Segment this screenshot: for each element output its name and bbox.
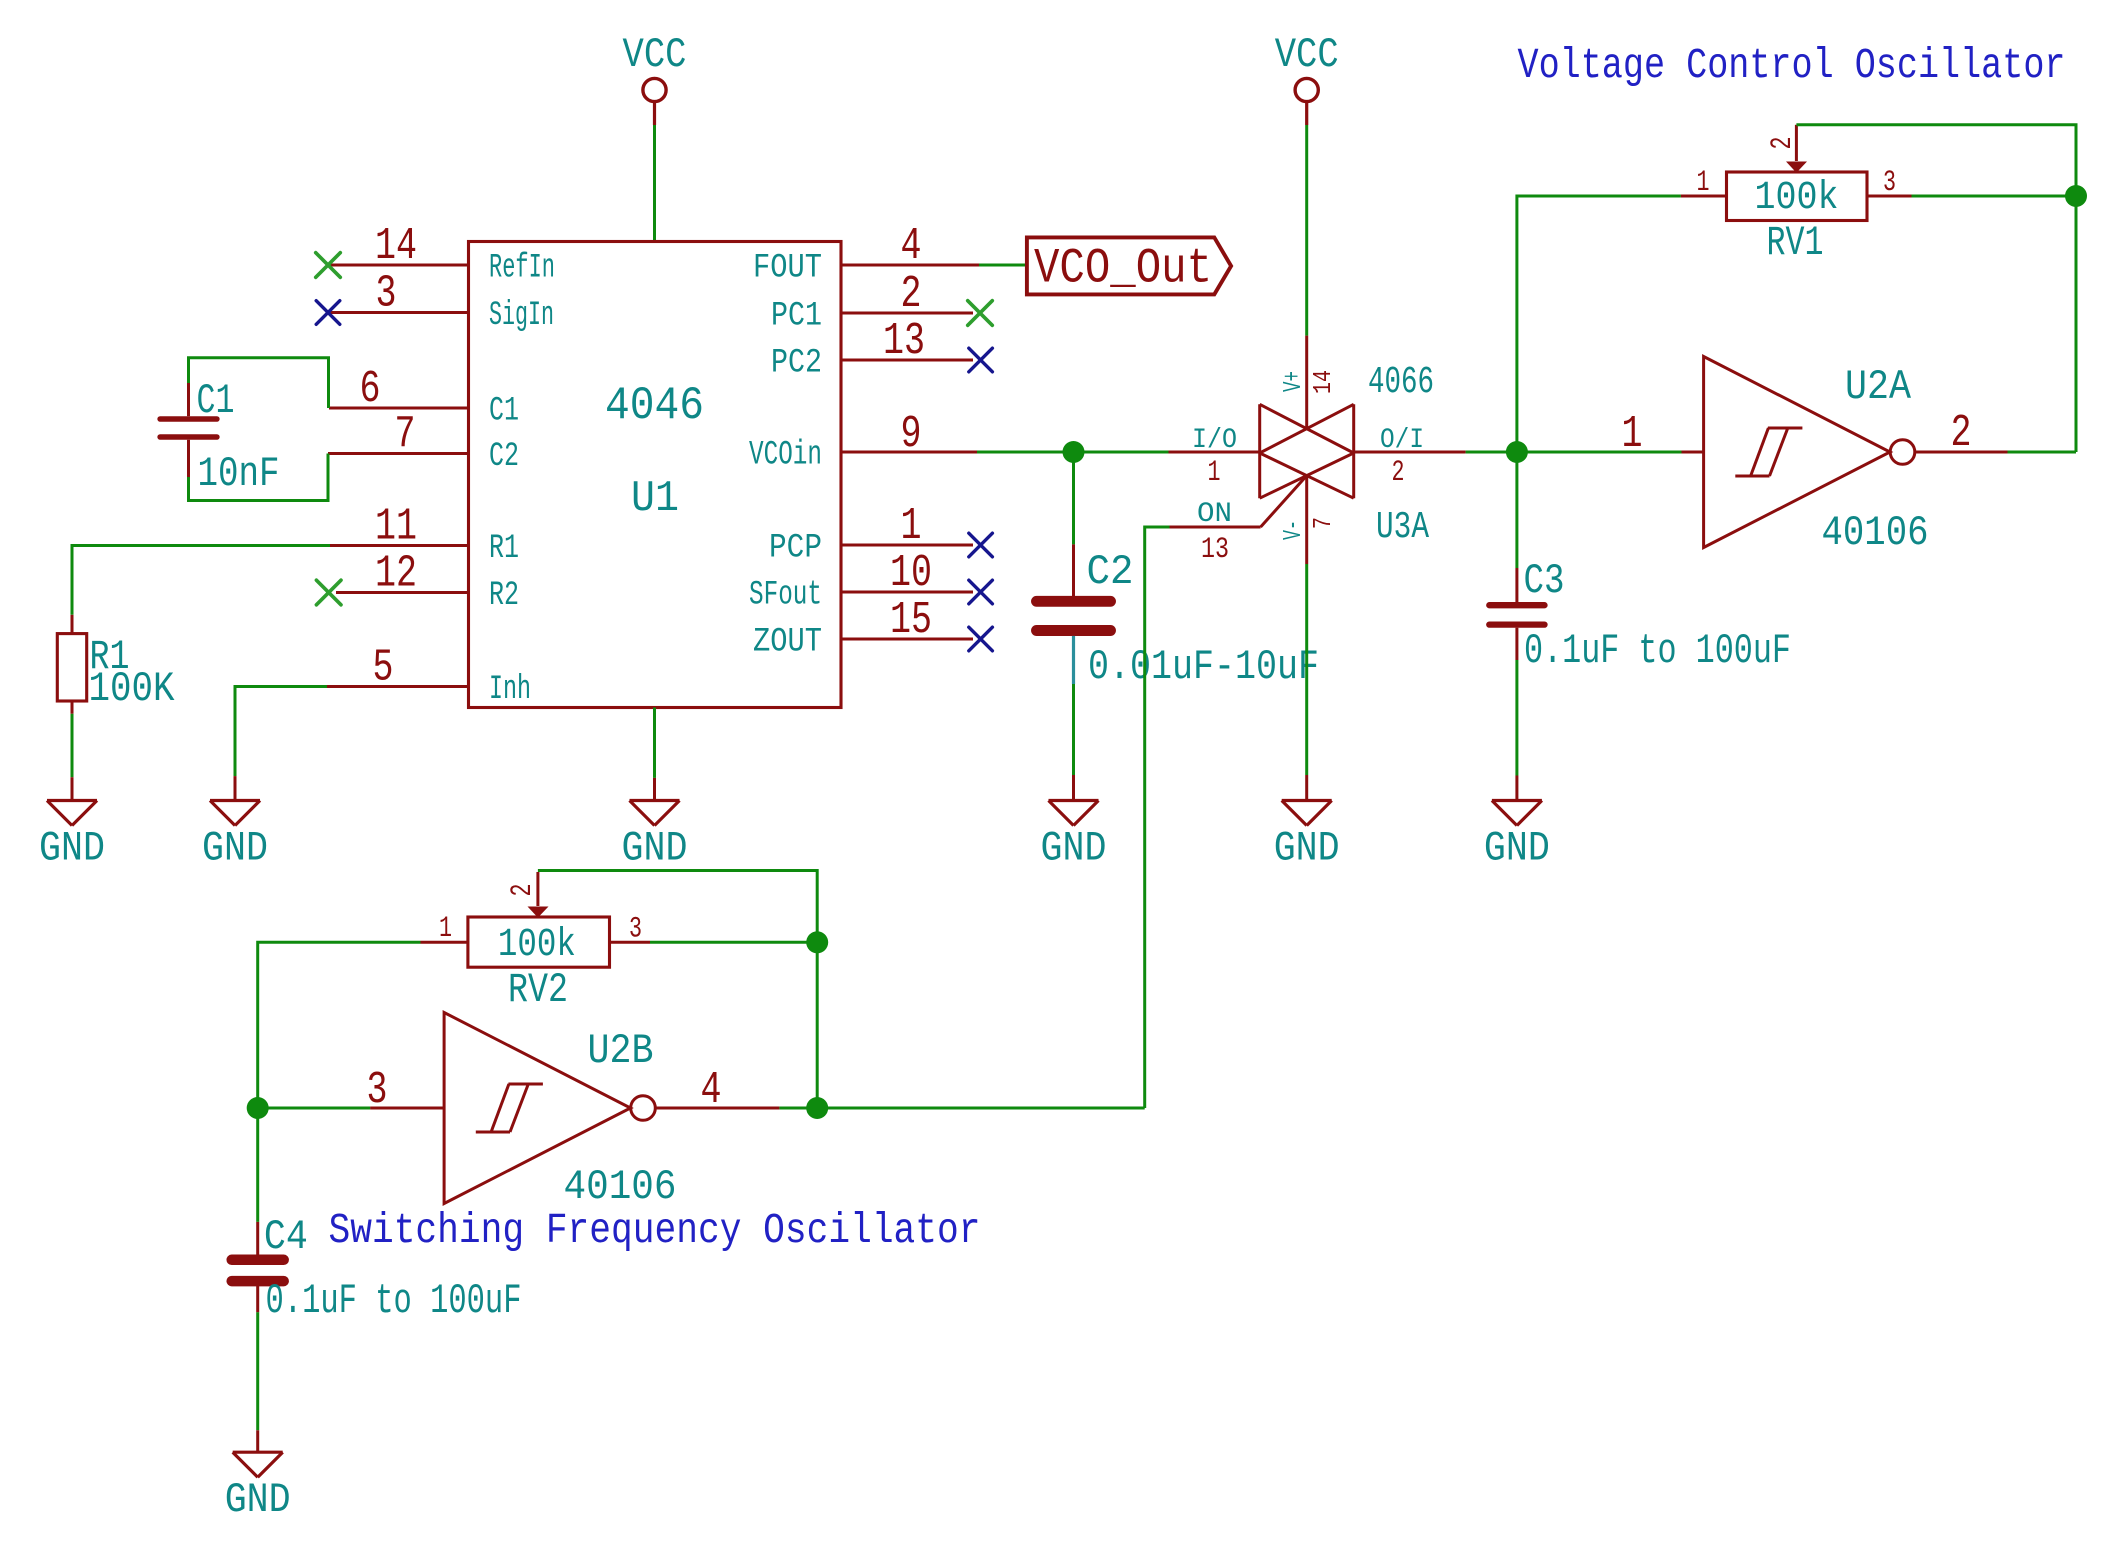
junction U2A input node xyxy=(1506,441,1528,463)
U3A pin 1 I/O xyxy=(1169,425,1260,490)
RV2 pin 3 number xyxy=(629,913,642,947)
C2 bottom teal pin segment xyxy=(1072,636,1075,684)
svg-text:RefIn: RefIn xyxy=(489,250,555,288)
wire ON riser xyxy=(1145,527,1170,1108)
RV1 pin 2 number xyxy=(1766,137,1800,150)
U3A pin 7 V- xyxy=(1278,476,1338,564)
ground GND (U1) xyxy=(622,778,688,873)
no-connect pin 12 (green X) xyxy=(316,580,341,605)
U1 pin 4 FOUT xyxy=(753,221,979,288)
svg-text:GND: GND xyxy=(39,825,105,873)
note title Switching Frequency Oscillator xyxy=(329,1206,981,1255)
svg-text:9: 9 xyxy=(901,409,922,460)
svg-text:13: 13 xyxy=(883,316,925,367)
svg-text:5: 5 xyxy=(373,643,394,694)
wire C1 bottom to U1 pin7 xyxy=(189,454,329,501)
svg-text:2: 2 xyxy=(901,269,922,320)
svg-text:VCC: VCC xyxy=(623,31,687,79)
U1 pin 5 Inh xyxy=(327,643,531,710)
wire RV2 pin3 to node xyxy=(650,941,817,944)
svg-text:V+: V+ xyxy=(1278,371,1308,392)
U2A pin 2 output xyxy=(1915,408,2008,459)
wire junction to C3 xyxy=(1515,452,1518,568)
note title Voltage Control Oscillator xyxy=(1518,41,2066,90)
svg-text:PC1: PC1 xyxy=(771,298,822,336)
svg-text:100K: 100K xyxy=(89,665,176,713)
svg-text:ON: ON xyxy=(1197,499,1232,530)
wire input node to U2B pin3 xyxy=(258,1107,370,1110)
svg-text:U3A: U3A xyxy=(1376,506,1429,549)
svg-text:RV1: RV1 xyxy=(1767,219,1824,267)
wire U1 pin9 to junction xyxy=(977,451,1074,454)
wire RV2 wiper loop xyxy=(538,871,817,943)
wire RV1 pin3 to output node xyxy=(1912,195,2077,198)
wire U3A O/I to junction xyxy=(1466,451,1517,454)
U1 pin 10 SFout xyxy=(749,548,973,615)
C3 value 0.1uF to 100uF xyxy=(1524,627,1791,675)
svg-text:RV2: RV2 xyxy=(508,966,568,1014)
wire RV2 node down to U2B output node xyxy=(816,942,819,1108)
ground GND (Inh) xyxy=(202,776,268,872)
U2B value 40106 xyxy=(564,1163,677,1211)
U3A value 4066 xyxy=(1368,361,1434,404)
capacitor C2 xyxy=(1037,544,1111,630)
svg-text:10: 10 xyxy=(890,548,932,599)
C3 reference xyxy=(1524,557,1565,605)
U3A reference U3A xyxy=(1376,506,1429,549)
svg-text:1: 1 xyxy=(1697,166,1710,200)
wire output node down to U2A output xyxy=(2075,196,2078,452)
svg-text:1: 1 xyxy=(439,912,452,946)
svg-text:40106: 40106 xyxy=(1822,509,1929,557)
ground GND (C4) xyxy=(225,1430,291,1524)
svg-text:1: 1 xyxy=(901,501,922,552)
svg-text:SFout: SFout xyxy=(749,577,822,615)
C2 reference xyxy=(1087,548,1134,596)
svg-text:13: 13 xyxy=(1201,533,1229,567)
wire C1 top to U1 pin6 xyxy=(189,358,329,408)
wire junction to U2A input xyxy=(1517,451,1682,454)
junction U2B input node xyxy=(247,1097,269,1119)
wire C2 to GND xyxy=(1072,684,1075,775)
svg-text:4: 4 xyxy=(901,221,922,272)
svg-text:C2: C2 xyxy=(1087,548,1134,596)
wire U1 pin8 to GND xyxy=(653,708,656,778)
svg-text:4: 4 xyxy=(701,1065,722,1116)
C1 value 10nF xyxy=(198,450,280,498)
wire junction up to RV1 pin1 xyxy=(1517,196,1681,452)
U1 pin 11 R1 xyxy=(330,502,519,569)
svg-text:3: 3 xyxy=(629,913,642,947)
wire U1 pin5 to GND xyxy=(235,687,327,777)
svg-text:Switching Frequency Oscillator: Switching Frequency Oscillator xyxy=(329,1206,981,1255)
U2B pin 4 output xyxy=(656,1065,780,1116)
wire VCC to U3A V+ xyxy=(1305,125,1308,336)
svg-text:7: 7 xyxy=(1308,517,1338,529)
svg-text:0.1uF to 100uF: 0.1uF to 100uF xyxy=(1524,627,1791,675)
RV1 pin 3 number xyxy=(1883,166,1896,200)
svg-text:C4: C4 xyxy=(264,1213,308,1261)
wire C3 to GND xyxy=(1515,660,1518,776)
no-connect pin 1 (blue X) xyxy=(969,533,993,557)
wire U3A V- to GND xyxy=(1305,564,1308,775)
U1 pin 3 SigIn xyxy=(330,269,554,336)
svg-text:3: 3 xyxy=(1883,166,1896,200)
svg-text:10nF: 10nF xyxy=(198,450,280,498)
no-connect pin 3 (blue X) xyxy=(316,301,340,325)
no-connect pin 2 (green X) xyxy=(968,301,993,326)
R1 reference xyxy=(90,633,130,681)
RV2 pin 2 number xyxy=(506,884,540,897)
U1 pin 9 VCOin xyxy=(749,409,977,475)
svg-text:Inh: Inh xyxy=(489,671,531,709)
potentiometer RV1 xyxy=(1681,125,1912,221)
wire VCC to U1 pin16 xyxy=(653,125,656,242)
svg-text:4066: 4066 xyxy=(1368,361,1434,404)
svg-text:2: 2 xyxy=(1392,456,1405,490)
U3A pin 14 V+ xyxy=(1278,336,1338,428)
svg-text:R2: R2 xyxy=(489,577,519,615)
wire junction to C2 xyxy=(1072,452,1075,544)
power flag VCC (U1) xyxy=(623,31,687,125)
svg-text:C1: C1 xyxy=(489,393,519,431)
junction U2B output node xyxy=(806,1097,828,1119)
no-connect pin 10 (blue X) xyxy=(969,580,993,604)
U1 pin 2 PC1 xyxy=(771,269,973,336)
svg-text:14: 14 xyxy=(375,221,417,272)
no-connect pin 13 (blue X) xyxy=(969,348,993,372)
capacitor C4 xyxy=(232,1222,284,1312)
svg-text:Voltage Control Oscillator: Voltage Control Oscillator xyxy=(1518,41,2066,90)
svg-text:14: 14 xyxy=(1308,370,1338,394)
wire C4 to GND xyxy=(256,1312,259,1430)
inverter U2A body xyxy=(1704,357,1915,548)
wire input node down to C4 xyxy=(256,1108,259,1222)
svg-text:11: 11 xyxy=(375,502,417,553)
svg-text:C3: C3 xyxy=(1524,557,1565,605)
svg-text:2: 2 xyxy=(506,884,540,897)
svg-text:U2A: U2A xyxy=(1845,363,1912,411)
svg-text:I/O: I/O xyxy=(1192,425,1237,456)
RV1 pin 1 number xyxy=(1697,166,1710,200)
ground GND (C3) xyxy=(1484,776,1550,873)
svg-text:12: 12 xyxy=(375,549,417,600)
U1 pin 13 PC2 xyxy=(771,316,973,383)
wire FOUT to VCO_Out label xyxy=(979,264,1027,267)
C4 value 0.1uF to 100uF xyxy=(266,1277,522,1325)
svg-text:4046: 4046 xyxy=(605,380,704,432)
svg-text:R1: R1 xyxy=(489,530,519,568)
junction RV1 output node xyxy=(2065,185,2087,207)
power flag VCC (U3A) xyxy=(1275,31,1339,125)
no-connect pin 15 (blue X) xyxy=(969,627,993,651)
U2B pin 3 input xyxy=(367,1065,445,1116)
svg-text:VCC: VCC xyxy=(1275,31,1339,79)
C4 reference xyxy=(264,1213,308,1261)
U2A value 40106 xyxy=(1822,509,1929,557)
junction RV2 output node xyxy=(806,931,828,953)
svg-text:VCOin: VCOin xyxy=(749,437,822,475)
R1 value 100K xyxy=(89,665,176,713)
resistor R1 xyxy=(57,615,86,714)
svg-text:C1: C1 xyxy=(197,377,235,425)
RV2 reference RV2 xyxy=(508,966,568,1014)
svg-text:15: 15 xyxy=(890,595,932,646)
svg-text:ZOUT: ZOUT xyxy=(753,624,822,662)
svg-text:SigIn: SigIn xyxy=(489,297,554,335)
svg-text:GND: GND xyxy=(1041,825,1107,873)
svg-text:0.01uF-10uF: 0.01uF-10uF xyxy=(1088,643,1319,691)
wire U2B output node to ON riser xyxy=(817,1107,1144,1110)
IC U1 4046 body xyxy=(469,242,842,708)
U3A pin 2 O/I xyxy=(1354,425,1466,490)
svg-text:FOUT: FOUT xyxy=(753,250,822,288)
C2 value 0.01uF-10uF xyxy=(1088,643,1319,691)
U2A pin 1 input xyxy=(1622,409,1704,460)
RV2 value 100k xyxy=(498,923,576,968)
svg-text:U1: U1 xyxy=(631,474,679,524)
svg-text:40106: 40106 xyxy=(564,1163,677,1211)
RV2 pin 1 number xyxy=(439,912,452,946)
wire U2B output to node xyxy=(779,1107,817,1110)
hierarchical label VCO_Out xyxy=(1027,237,1231,296)
svg-text:6: 6 xyxy=(360,364,381,415)
RV1 reference RV1 xyxy=(1767,219,1824,267)
wire junction to U3A I/O xyxy=(1074,451,1169,454)
svg-text:GND: GND xyxy=(202,825,268,873)
inverter U2B body xyxy=(444,1013,655,1204)
wire U2A output to node xyxy=(2008,451,2077,454)
U1 pin 15 ZOUT xyxy=(753,595,973,662)
U1 pin 7 C2 xyxy=(328,410,519,477)
capacitor C3 xyxy=(1489,568,1544,660)
svg-text:PC2: PC2 xyxy=(771,345,822,383)
U1 value 4046 xyxy=(605,380,704,432)
svg-text:3: 3 xyxy=(376,269,397,320)
svg-text:GND: GND xyxy=(1274,825,1340,873)
U1 pin 14 RefIn xyxy=(330,221,555,288)
ground GND (U3A) xyxy=(1274,775,1340,873)
U2B reference U2B xyxy=(588,1027,654,1075)
wire RV2 pin1 to input node xyxy=(258,942,421,1108)
RV1 value 100k xyxy=(1755,176,1839,221)
ground GND (R1) xyxy=(39,777,105,872)
junction VCOin node xyxy=(1063,441,1085,463)
wire RV1 wiper to output node xyxy=(1796,125,2076,195)
C1 reference xyxy=(197,377,235,425)
svg-text:2: 2 xyxy=(1766,137,1800,150)
svg-text:1: 1 xyxy=(1208,456,1221,490)
svg-text:2: 2 xyxy=(1951,408,1972,459)
no-connect pin 14 (green X) xyxy=(316,253,341,278)
svg-text:100k: 100k xyxy=(498,923,576,968)
ground GND (C2) xyxy=(1041,775,1107,873)
svg-text:GND: GND xyxy=(225,1476,291,1524)
U1 pin 12 R2 xyxy=(336,549,519,616)
analog switch U3A body xyxy=(1260,404,1354,498)
svg-text:7: 7 xyxy=(395,410,416,461)
svg-text:C2: C2 xyxy=(489,438,519,476)
wire U1 pin11 to R1 xyxy=(72,546,330,615)
svg-text:U2B: U2B xyxy=(588,1027,654,1075)
wire R1 to GND xyxy=(71,714,74,777)
capacitor C1 xyxy=(160,382,217,478)
potentiometer RV2 xyxy=(421,872,651,967)
U1 pin 1 PCP xyxy=(769,501,973,568)
svg-text:GND: GND xyxy=(1484,825,1550,873)
U2A reference U2A xyxy=(1845,363,1912,411)
svg-text:PCP: PCP xyxy=(769,530,822,568)
U3A pin 13 ON xyxy=(1170,476,1307,567)
svg-text:GND: GND xyxy=(622,825,688,873)
svg-text:V-: V- xyxy=(1278,520,1308,540)
svg-text:0.1uF to 100uF: 0.1uF to 100uF xyxy=(266,1277,522,1325)
svg-text:O/I: O/I xyxy=(1380,425,1424,456)
U1 reference U1 xyxy=(631,474,679,524)
U1 pin 6 C1 xyxy=(329,364,519,431)
svg-text:VCO_Out: VCO_Out xyxy=(1034,241,1212,297)
svg-text:100k: 100k xyxy=(1755,176,1839,221)
